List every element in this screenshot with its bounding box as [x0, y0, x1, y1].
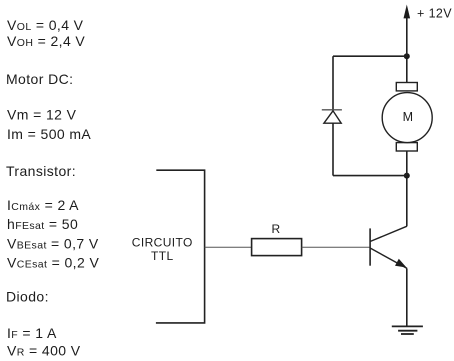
node junction top (+12V / motor / diode): [404, 53, 410, 59]
label CIRCUITO TTL: [132, 235, 193, 262]
wire diode branch bottom vertical: [332, 123, 334, 175]
wire motor to bottom junction: [406, 151, 408, 176]
supply +12V arrow: [404, 5, 411, 57]
svg-text:CIRCUITO: CIRCUITO: [132, 235, 193, 249]
motor M: [382, 83, 432, 152]
svg-text:Vm = 12 V: Vm = 12 V: [7, 107, 77, 123]
svg-text:Motor DC:: Motor DC:: [6, 71, 73, 87]
wire emitter to ground: [406, 268, 408, 326]
wire top junction to diode branch: [333, 55, 407, 57]
wire diode branch to bottom junction: [333, 175, 407, 177]
svg-text:TTL: TTL: [151, 249, 174, 263]
svg-text:+ 12V: + 12V: [417, 7, 452, 21]
svg-text:Transistor:: Transistor:: [6, 163, 76, 179]
resistor R: [252, 239, 302, 256]
TTL circuit block U1: [156, 170, 205, 323]
transistor Q1 NPN: [370, 226, 407, 268]
wire collector to motor junction: [406, 176, 408, 227]
wire diode branch top vertical: [332, 56, 334, 110]
svg-text:Im = 500 mA: Im = 500 mA: [7, 126, 91, 142]
wire motor to top junction: [406, 56, 408, 82]
svg-text:Diodo:: Diodo:: [6, 288, 49, 304]
wire TTL output to resistor: [205, 246, 252, 248]
node junction bottom (collector / diode / motor): [404, 173, 410, 179]
svg-text:R: R: [271, 222, 280, 236]
ground: [392, 326, 423, 334]
svg-text:M: M: [403, 110, 414, 124]
wire resistor to transistor base: [302, 246, 370, 248]
diode D1 (flyback, cathode up): [322, 110, 342, 123]
